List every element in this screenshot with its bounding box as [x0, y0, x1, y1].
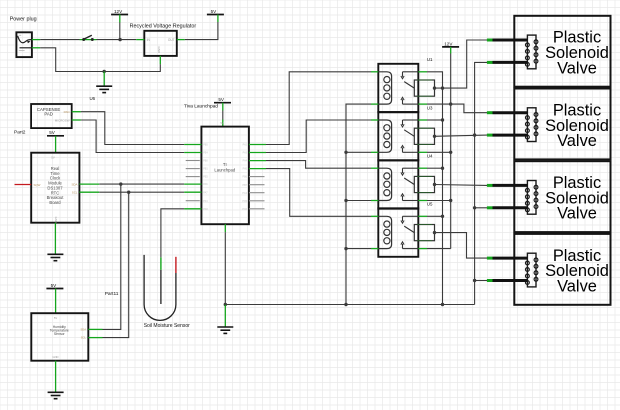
- RTC breakout module U3rtc: [31, 153, 79, 223]
- svg-text:Recycled Voltage Regulator: Recycled Voltage Regulator: [130, 24, 197, 30]
- wire 12V symbol to node: [119, 23, 121, 40]
- svg-text:SDA: SDA: [80, 327, 86, 331]
- power symbol 12V (relay contacts): [442, 41, 459, 53]
- wire humidity SCL up to I2C SCL: [103, 192, 129, 337]
- pin U4 NO (right top): [418, 167, 427, 169]
- svg-text:PA2: PA2: [243, 144, 248, 147]
- svg-text:PAD: PAD: [64, 110, 71, 114]
- wire relay coil ground rail (vertical x=346): [346, 104, 371, 304]
- wire launchpad to soil sensor: [161, 209, 184, 258]
- svg-text:PA5: PA5: [243, 168, 248, 171]
- node U4 COM junction: [433, 183, 436, 186]
- pin U3 coil+ (left top): [371, 119, 378, 121]
- node valve rail junction v4: [473, 279, 476, 282]
- node coil rail to ground rail: [344, 303, 347, 306]
- svg-text:PB1: PB1: [203, 168, 208, 171]
- ground U6: [90, 86, 113, 101]
- pin U3 NC (right bottom): [418, 151, 427, 153]
- svg-text:PAD: PAD: [44, 112, 53, 117]
- pin RTC GND wire: [54, 223, 56, 254]
- wire relay coil- to rail: [346, 248, 371, 250]
- power symbol 5V (RTC): [47, 130, 64, 153]
- pin V3-1 lead: [493, 184, 528, 187]
- pin RTC SDA: [79, 183, 99, 185]
- svg-text:SCL: SCL: [72, 191, 78, 195]
- wire SDA to launchpad: [99, 183, 184, 185]
- pin V1-1 lead: [493, 39, 528, 42]
- power symbol 5V (humidity sensor): [46, 283, 63, 313]
- pin launchpad right PA4 (connected): [249, 160, 266, 162]
- wire relay NC to 12V rail: [427, 151, 451, 153]
- svg-text:5V: 5V: [220, 121, 223, 125]
- wire launchpad to relay coil: [266, 72, 371, 145]
- pin U1 NC (right bottom): [418, 103, 427, 105]
- pin launchpad GND: [224, 224, 226, 232]
- svg-text:U1: U1: [427, 57, 433, 62]
- svg-text:Tiva Launchpad: Tiva Launchpad: [184, 103, 218, 109]
- svg-text:5V: 5V: [211, 9, 218, 14]
- svg-text:Launchpad: Launchpad: [214, 168, 235, 173]
- ground (launchpad): [217, 326, 233, 328]
- pin J1-1 (tip): [32, 39, 40, 41]
- svg-text:Board: Board: [49, 200, 61, 205]
- pin launchpad right PC5 (unconnected): [249, 200, 265, 202]
- capsense pad module Part2: [14, 104, 72, 136]
- pin soil sensor unconnected (red): [175, 257, 177, 273]
- relay U5: [378, 202, 434, 257]
- wire launchpad to relay coil: [266, 161, 371, 169]
- svg-text:U5: U5: [427, 202, 433, 207]
- node valve rail junction v3: [473, 206, 476, 209]
- pin V1-2 lead: [493, 61, 528, 64]
- humidity temperature sensor Part11: [31, 291, 119, 361]
- svg-text:PA4: PA4: [243, 160, 248, 163]
- node 12V rail junction: [449, 102, 452, 105]
- pin launchpad right PA5 (connected): [249, 168, 266, 170]
- node NO chain at U1 COM row: [441, 86, 444, 89]
- ground (humidity sensor): [48, 391, 64, 393]
- node SDA junction: [119, 182, 122, 185]
- pin U2 IN: [136, 39, 144, 41]
- pin U2 OUT: [177, 39, 185, 41]
- node ground rail left junction: [224, 303, 227, 306]
- svg-text:Valve: Valve: [557, 277, 597, 295]
- pin U1 coil+ (left top): [371, 71, 378, 73]
- pin ground U6: [103, 72, 105, 86]
- power symbol 12V: [111, 9, 128, 23]
- pin launchpad left PA7 (connected): [184, 191, 201, 193]
- pin U5 coil+ (left top): [371, 215, 378, 217]
- svg-text:PB6: PB6: [242, 176, 247, 179]
- svg-text:PB0: PB0: [203, 160, 208, 163]
- solenoid valve V4: [514, 234, 610, 305]
- wire plug sleeve to ground rail: [40, 48, 104, 72]
- wire relay NO to chain: [427, 167, 443, 169]
- svg-text:5V: 5V: [49, 130, 56, 135]
- svg-text:PB5: PB5: [203, 144, 208, 147]
- pin ground symbol (launchpad): [224, 305, 226, 327]
- wire rail to valve4 pin2: [475, 280, 487, 282]
- node coil rail junction: [344, 247, 347, 250]
- pin launchpad left PF4 (unconnected): [186, 200, 200, 202]
- pin launchpad right PC4 (unconnected): [249, 192, 265, 194]
- wire relay NO chain (vertical x=442.5): [427, 72, 443, 305]
- node coil rail junction: [344, 151, 347, 154]
- switch S1: [80, 35, 97, 41]
- svg-text:5V: 5V: [54, 316, 57, 320]
- svg-text:OUT: OUT: [168, 38, 175, 42]
- pin RTC SCL: [79, 191, 99, 193]
- pin humidity GND wire: [55, 361, 57, 392]
- svg-text:12V: 12V: [114, 9, 123, 14]
- node NO chain junction: [441, 167, 444, 170]
- pin launchpad left PB1 (unconnected): [186, 168, 200, 170]
- wire relay NC to 12V rail: [427, 200, 451, 202]
- svg-text:Soil Moisture Sensor: Soil Moisture Sensor: [144, 323, 190, 329]
- pin launchpad left PA6 (connected): [184, 183, 201, 185]
- node U5 COM junction: [433, 231, 436, 234]
- wire SCL to launchpad: [99, 191, 184, 193]
- node coil rail junction: [344, 199, 347, 202]
- pin U4 coil+ (left top): [371, 167, 378, 169]
- svg-text:SDA: SDA: [71, 182, 77, 186]
- solenoid valve V3: [514, 161, 610, 232]
- pin V4-2 lead: [493, 279, 528, 282]
- node NO chain junction: [441, 118, 444, 121]
- pin J1-2 (sleeve): [32, 47, 40, 49]
- pin launchpad left PD2 (connected): [184, 208, 201, 210]
- pin humidity SDA: [88, 328, 102, 330]
- pin V4-1 lead: [493, 257, 528, 260]
- svg-text:Part2: Part2: [14, 130, 26, 136]
- node U1 COM junction: [433, 86, 436, 89]
- wire relay NO to chain: [427, 215, 443, 217]
- pin launchpad left PB5 (connected): [184, 144, 201, 146]
- pin U1 coil- (left bottom): [371, 103, 378, 105]
- svg-text:Power plug: Power plug: [10, 17, 37, 23]
- soil moisture sensor probe: [144, 255, 190, 329]
- wire U4 COM to valve3 pin1: [435, 184, 488, 187]
- wire launchpad GND down to ground rail: [224, 232, 226, 304]
- wire capsense PAD to launchpad: [81, 112, 184, 145]
- wire U1 COM to valve1 pin1: [435, 40, 488, 88]
- wire relay NC to 12V rail: [427, 248, 451, 250]
- wire relay coil- to rail: [346, 200, 371, 202]
- pin V3-2 lead: [493, 206, 528, 209]
- svg-text:TI: TI: [223, 162, 227, 167]
- pin RTC SQW unconnected (red): [15, 184, 32, 186]
- svg-text:12V: 12V: [444, 41, 453, 46]
- pin launchpad VCC: [222, 120, 224, 127]
- svg-text:Valve: Valve: [557, 132, 597, 150]
- svg-text:PC5: PC5: [242, 200, 247, 203]
- pin Part2 MICROSW: [72, 119, 81, 121]
- node NO chain to ground rail: [441, 303, 444, 306]
- wire U3 COM to valve2 pin2: [435, 135, 488, 136]
- wire plug tip to switch: [40, 39, 79, 41]
- node 12V junction: [118, 38, 121, 41]
- svg-text:PC4: PC4: [242, 192, 247, 195]
- pin launchpad left PE5 (unconnected): [186, 176, 200, 178]
- voltage regulator U2: [130, 24, 197, 56]
- pin U4 NC (right bottom): [418, 200, 427, 202]
- node U3 COM junction: [433, 135, 436, 138]
- node 12V rail junction: [449, 199, 452, 202]
- svg-text:U6: U6: [90, 96, 96, 101]
- power plug J1: [10, 17, 37, 58]
- pin U4 coil- (left bottom): [371, 200, 378, 202]
- node SCL junction: [127, 191, 130, 194]
- pin Part2 PAD: [72, 111, 81, 113]
- svg-text:U4: U4: [427, 154, 433, 159]
- svg-text:5V: 5V: [218, 97, 225, 102]
- svg-text:GND: GND: [53, 355, 59, 359]
- pin V2-1 lead: [493, 111, 528, 114]
- svg-text:Valve: Valve: [557, 205, 597, 223]
- pin launchpad right PB6 (unconnected): [249, 176, 265, 178]
- node ground junction U6: [103, 70, 106, 73]
- svg-text:PA6: PA6: [203, 183, 208, 186]
- pin launchpad left PB0 (unconnected): [186, 160, 200, 162]
- wire U5 COM to valve4 pin1: [435, 233, 488, 259]
- wire humidity SDA up to I2C SDA: [103, 184, 121, 329]
- wire 12V to valve2 pin1: [451, 104, 487, 113]
- wire regulator GND to ground rail: [104, 64, 160, 71]
- svg-text:PF4: PF4: [203, 200, 208, 203]
- svg-text:5V: 5V: [51, 283, 58, 288]
- node NO chain junction: [441, 215, 444, 218]
- relay U4: [378, 154, 434, 209]
- pin V2-2 lead: [493, 134, 528, 137]
- wire 5V to launchpad VCC: [222, 111, 224, 120]
- pin launchpad right PC6 (unconnected): [249, 208, 265, 210]
- pin U2 GND: [159, 56, 161, 64]
- wire relay coil- to rail: [346, 151, 371, 153]
- power symbol 5V (regulator output): [207, 9, 224, 22]
- svg-text:PE4: PE4: [203, 152, 208, 155]
- pin U5 NO (right top): [418, 215, 427, 217]
- pin U5 coil- (left bottom): [371, 248, 378, 250]
- svg-text:PC6: PC6: [242, 208, 247, 211]
- wire relay NC to 12V rail: [427, 103, 451, 105]
- pin U3 NO (right top): [418, 119, 427, 121]
- svg-text:GND: GND: [157, 47, 161, 55]
- pin soil sensor signal (green): [160, 257, 162, 269]
- wire launchpad to relay coil: [266, 169, 371, 217]
- pin launchpad right PA3 (connected): [249, 152, 266, 154]
- relay U3: [378, 105, 434, 160]
- wire capsense MICROSW to launchpad: [81, 120, 184, 153]
- solenoid valve V2: [514, 89, 610, 160]
- wire rail to valve3 pin2: [475, 207, 487, 209]
- svg-text:Sensor: Sensor: [54, 332, 66, 336]
- wire valve pin2 rail (vertical x=474.6): [475, 62, 487, 304]
- svg-text:PA3: PA3: [243, 152, 248, 155]
- node 12V rail junction: [449, 151, 452, 154]
- pin launchpad right PA2 (connected): [249, 144, 266, 146]
- relay U1: [378, 57, 434, 112]
- wire OUT to 5V symbol: [185, 22, 218, 40]
- svg-text:PE5: PE5: [203, 176, 208, 179]
- svg-text:PA7: PA7: [203, 191, 208, 194]
- pin launchpad left PE4 (connected): [184, 152, 201, 154]
- svg-text:5V: 5V: [51, 155, 55, 159]
- svg-text:MICROSW: MICROSW: [55, 118, 70, 122]
- svg-text:Valve: Valve: [557, 59, 597, 77]
- solenoid valve V1: [514, 16, 610, 87]
- wire 12V vertical rail: [450, 54, 452, 249]
- wire switch to 12V node: [97, 39, 121, 41]
- svg-text:Part11: Part11: [105, 291, 119, 297]
- node valve rail junction v2: [473, 133, 476, 136]
- pin U1 NO (right top): [418, 71, 427, 73]
- svg-text:PB7: PB7: [242, 184, 247, 187]
- wire ground rail (bottom): [225, 304, 474, 306]
- pin humidity SCL: [88, 337, 102, 339]
- wire launchpad to relay coil: [266, 120, 371, 153]
- pin U3 coil- (left bottom): [371, 151, 378, 153]
- TI Launchpad U1lp: [184, 103, 249, 224]
- pin launchpad right PB7 (unconnected): [249, 184, 265, 186]
- wire node to regulator IN: [120, 39, 136, 41]
- ground (RTC): [47, 253, 63, 255]
- svg-text:GND: GND: [54, 217, 58, 223]
- svg-text:SCL: SCL: [81, 336, 87, 340]
- svg-text:SQW: SQW: [34, 183, 41, 187]
- svg-text:PD2: PD2: [203, 208, 208, 211]
- power symbol 5V (launchpad): [214, 97, 231, 110]
- pin U5 NC (right bottom): [418, 248, 427, 250]
- svg-text:U3: U3: [427, 105, 433, 110]
- wire relay NO to chain: [427, 119, 443, 121]
